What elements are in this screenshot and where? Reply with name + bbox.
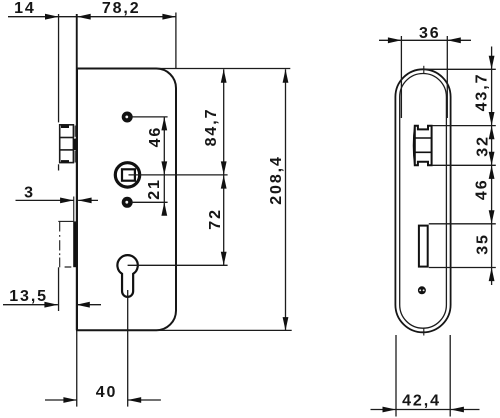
faceplate bottom center tick (423, 328, 425, 336)
svg-text:32: 32 (475, 135, 492, 157)
euro cylinder hole (117, 255, 137, 297)
latch top clip mark (61, 125, 69, 128)
svg-text:42,4: 42,4 (402, 393, 441, 410)
faceplate top center tick (423, 66, 425, 74)
cylinder center line down (127, 290, 129, 407)
extension line cylinder center (128, 264, 228, 266)
latch bolt body (60, 125, 74, 163)
svg-text:46: 46 (474, 178, 491, 200)
dimension 36 (379, 39, 471, 41)
deadbolt head (73, 221, 76, 267)
hub block outline (415, 126, 432, 166)
extension line follower center (129, 174, 228, 176)
right extension lines (424, 69, 496, 267)
svg-text:78,2: 78,2 (102, 0, 141, 17)
extension line case bottom to right (157, 329, 292, 331)
dimension line 84,7 / 72 (223, 69, 225, 265)
latch side thin lines (74, 126, 76, 163)
deadbolt face line (73, 197, 75, 222)
faceplate right edge line (76, 14, 78, 330)
svg-text:72: 72 (207, 208, 224, 230)
svg-text:14: 14 (14, 0, 36, 17)
deadbolt slot (419, 226, 428, 267)
hub internal lines (414, 138, 432, 152)
dimension 40 (45, 399, 161, 401)
svg-text:208,4: 208,4 (268, 155, 285, 205)
lock case outline (77, 69, 176, 331)
svg-text:46: 46 (147, 126, 164, 148)
dimension line 46 / 21 (163, 117, 165, 215)
extension line lower hole (131, 201, 168, 203)
dimension 3 (bolt protrusion) (16, 199, 99, 201)
svg-text:35: 35 (475, 233, 492, 255)
deadbolt bottom dash (65, 266, 72, 268)
deadbolt top edge (58, 220, 73, 222)
svg-text:40: 40 (96, 384, 118, 401)
latch right wedge (73, 138, 77, 150)
follower hub U1 (115, 163, 139, 187)
faceplate left edge line (58, 14, 60, 311)
arrow 78,2 right tip (162, 14, 176, 20)
dimension 13,5 (3, 304, 101, 306)
svg-text:84,7: 84,7 (203, 108, 220, 147)
upper hole (122, 112, 133, 123)
extension line case right top (175, 13, 177, 69)
dimension 42,4 (371, 409, 480, 411)
dimension column 43,7 32 46 35 (491, 47, 493, 286)
round faceplate outer outline (395, 69, 450, 332)
svg-text:3: 3 (24, 184, 35, 201)
follower square (122, 169, 135, 180)
extension line faceplate down to 40 dim (76, 330, 78, 406)
screw hole (418, 286, 426, 294)
arrow 14 right tip (45, 14, 59, 20)
svg-text:36: 36 (419, 25, 441, 42)
svg-text:43,7: 43,7 (474, 73, 491, 112)
dimension line 208,4 (285, 69, 287, 330)
deadbolt hidden dash-dot line (59, 222, 61, 267)
hub left flange arc (414, 126, 415, 166)
arrow 78,2 left tip (77, 14, 91, 20)
svg-text:13,5: 13,5 (9, 288, 48, 305)
extension line case top to right (157, 68, 290, 70)
extension line upper hole (129, 116, 168, 118)
lower hole (122, 197, 133, 208)
svg-text:21: 21 (146, 178, 163, 200)
latch bottom clip mark (61, 160, 69, 163)
dimension line 14 / 78,2 top (8, 16, 176, 18)
round faceplate inner outline (400, 74, 447, 329)
